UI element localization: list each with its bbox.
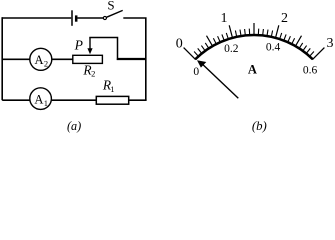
svg-text:2: 2	[44, 59, 48, 69]
wire A2 to R2	[52, 58, 73, 60]
minor tick marks	[194, 29, 314, 57]
resistor R1	[96, 96, 128, 104]
svg-text:0: 0	[176, 37, 183, 52]
wire top-left from left rail to battery	[2, 17, 71, 19]
svg-text:0.2: 0.2	[224, 43, 239, 55]
wire bottom branch left	[2, 99, 30, 101]
svg-text:2: 2	[281, 11, 288, 26]
svg-text:0.6: 0.6	[303, 65, 318, 77]
rheostat R2	[73, 55, 103, 63]
ammeter A1	[30, 88, 52, 110]
svg-text:1: 1	[221, 11, 228, 26]
svg-text:S: S	[107, 0, 114, 13]
integer tick marks (1, 2 A)	[229, 25, 279, 38]
wire A1 to R1	[52, 99, 96, 101]
svg-text:3: 3	[327, 36, 334, 51]
svg-text:1: 1	[44, 98, 48, 108]
svg-text:A: A	[248, 62, 257, 76]
half-value tick marks (0.5, 1.5, 2.5 A)	[207, 23, 302, 47]
end tick marks (0, 3 A)	[184, 48, 325, 60]
label R2	[82, 63, 95, 79]
slider P arrow	[87, 38, 92, 55]
svg-text:0.4: 0.4	[266, 42, 281, 54]
wire switch to top-right corner and right rail down	[123, 18, 146, 100]
wire R1 to right rail	[129, 99, 146, 101]
svg-text:2: 2	[91, 69, 95, 79]
svg-text:0: 0	[193, 66, 199, 78]
svg-text:A: A	[34, 53, 43, 67]
svg-text:A: A	[34, 92, 43, 106]
label R1	[102, 78, 115, 94]
switch S	[103, 10, 122, 19]
svg-text:(b): (b)	[252, 119, 267, 133]
wire slider to right rail	[89, 38, 146, 59]
wire left rail vertical	[1, 17, 3, 100]
svg-text:P: P	[74, 38, 83, 53]
wire battery to switch	[78, 17, 104, 19]
svg-text:1: 1	[110, 84, 114, 94]
svg-text:(a): (a)	[67, 119, 81, 133]
battery	[72, 10, 76, 25]
meter scale arc	[195, 35, 312, 59]
needle	[197, 60, 238, 98]
ammeter A2	[30, 48, 52, 70]
wire middle branch left	[2, 58, 30, 60]
